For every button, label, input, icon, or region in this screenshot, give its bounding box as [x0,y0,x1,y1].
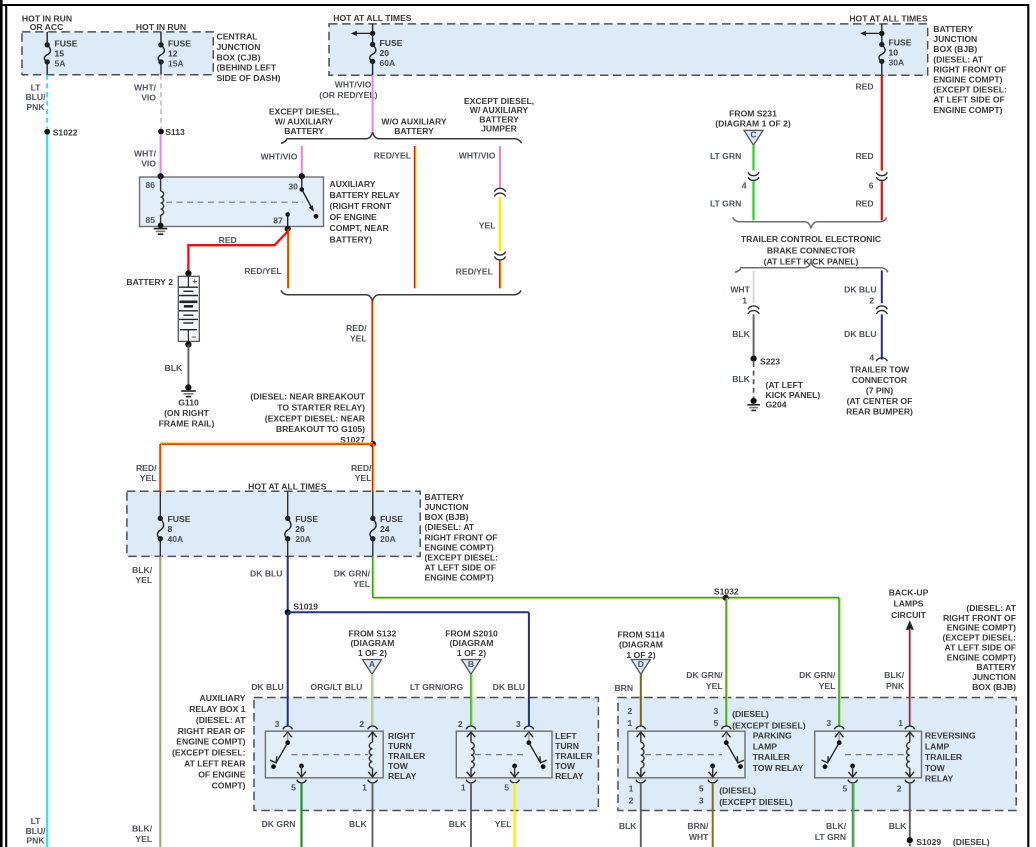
svg-text:87: 87 [273,216,283,226]
svg-text:FRAME RAIL): FRAME RAIL) [159,418,215,428]
svg-text:BOX (BJB): BOX (BJB) [933,44,977,54]
svg-text:YEL: YEL [353,579,370,589]
svg-text:BLK: BLK [732,329,750,339]
svg-text:4: 4 [869,352,874,362]
svg-text:BLK: BLK [619,821,637,831]
svg-text:3: 3 [275,719,280,729]
svg-text:YEL: YEL [350,333,367,343]
svg-text:BREAKOUT TO G105): BREAKOUT TO G105) [276,424,365,434]
svg-text:FUSE: FUSE [55,39,78,49]
svg-text:TO STARTER RELAY): TO STARTER RELAY) [277,402,365,412]
svg-text:2: 2 [628,706,633,716]
svg-text:YEL: YEL [135,834,152,844]
svg-text:AT LEFT SIDE OF: AT LEFT SIDE OF [945,642,1016,652]
svg-text:YEL: YEL [140,473,157,483]
svg-text:COMPT): COMPT) [212,780,246,790]
svg-text:BRN/: BRN/ [687,821,709,831]
svg-text:PNK: PNK [26,102,45,112]
svg-text:1: 1 [898,718,903,728]
svg-text:JUNCTION: JUNCTION [933,34,977,44]
svg-text:RED/: RED/ [136,463,157,473]
svg-text:COMPT, NEAR: COMPT, NEAR [330,223,390,233]
svg-text:2: 2 [458,719,463,729]
svg-text:ENGINE COMPT): ENGINE COMPT) [933,75,1002,85]
svg-text:BLK: BLK [165,363,183,373]
svg-text:SIDE OF DASH): SIDE OF DASH) [217,73,281,83]
svg-text:LEFT: LEFT [555,731,577,741]
svg-text:WHT/VIO: WHT/VIO [335,80,372,90]
svg-text:TRAILER TOW: TRAILER TOW [850,365,910,375]
svg-text:1: 1 [629,784,634,794]
svg-text:5: 5 [842,784,847,794]
svg-text:5: 5 [291,782,296,792]
svg-text:3: 3 [516,719,521,729]
svg-text:CIRCUIT: CIRCUIT [891,610,927,620]
svg-text:8: 8 [168,524,173,534]
svg-text:BLU/: BLU/ [25,92,46,102]
svg-text:AT LEFT REAR: AT LEFT REAR [184,759,246,769]
svg-text:(DIAGRAM 1 OF 2): (DIAGRAM 1 OF 2) [715,119,791,129]
svg-text:RED/YEL: RED/YEL [456,266,493,276]
svg-text:WHT: WHT [689,832,709,842]
svg-text:FROM S114: FROM S114 [617,630,665,640]
svg-text:5: 5 [504,782,509,792]
svg-text:S1022: S1022 [53,127,78,137]
svg-text:BATTERY RELAY: BATTERY RELAY [330,190,400,200]
svg-text:BLU/: BLU/ [25,826,46,836]
svg-text:(EXCEPT DIESEL): (EXCEPT DIESEL) [719,797,793,807]
svg-text:JUNCTION: JUNCTION [972,672,1016,682]
svg-text:(DIESEL: AT: (DIESEL: AT [966,603,1016,613]
svg-text:W/ AUXILIARY: W/ AUXILIARY [275,116,334,126]
svg-text:TOW: TOW [925,763,946,773]
svg-text:5: 5 [714,718,719,728]
svg-text:(BEHIND LEFT: (BEHIND LEFT [217,63,277,73]
svg-text:FUSE: FUSE [380,38,403,48]
svg-text:TURN: TURN [555,741,579,751]
svg-text:JUMPER: JUMPER [481,124,518,134]
svg-text:BLK: BLK [889,821,907,831]
svg-text:HOT AT ALL TIMES: HOT AT ALL TIMES [333,13,412,23]
svg-text:6: 6 [869,180,874,190]
svg-text:CENTRAL: CENTRAL [217,32,258,42]
svg-text:BLK: BLK [349,819,367,829]
svg-text:AT LEFT SIDE OF: AT LEFT SIDE OF [425,563,496,573]
svg-text:S223: S223 [760,356,780,366]
svg-text:FUSE: FUSE [295,514,318,524]
svg-text:24: 24 [380,524,390,534]
svg-text:YEL: YEL [706,681,723,691]
svg-text:5: 5 [699,784,704,794]
svg-text:BLK: BLK [449,819,467,829]
svg-text:RELAY BOX 1: RELAY BOX 1 [189,704,246,714]
svg-text:FUSE: FUSE [168,514,191,524]
svg-text:(EXCEPT DIESEL): (EXCEPT DIESEL) [732,721,806,731]
svg-text:REVERSING: REVERSING [925,731,976,741]
svg-text:WHT/: WHT/ [134,83,157,93]
svg-text:26: 26 [295,524,305,534]
svg-text:RELAY: RELAY [925,774,954,784]
svg-text:RED/YEL: RED/YEL [244,266,281,276]
svg-text:OF ENGINE: OF ENGINE [198,769,246,779]
svg-text:FROM S132: FROM S132 [349,628,397,638]
svg-text:BLK/: BLK/ [884,670,905,680]
svg-text:B: B [468,659,474,669]
svg-text:FUSE: FUSE [168,39,191,49]
svg-text:4: 4 [742,180,747,190]
svg-text:(RIGHT FRONT: (RIGHT FRONT [330,201,392,211]
svg-text:S113: S113 [165,127,185,137]
svg-text:VIO: VIO [141,93,156,103]
svg-text:ENGINE COMPT): ENGINE COMPT) [947,623,1016,633]
svg-text:HOT AT ALL TIMES: HOT AT ALL TIMES [849,13,928,23]
svg-text:BATTERY): BATTERY) [330,234,373,244]
svg-text:(AT CENTER OF: (AT CENTER OF [847,396,913,406]
svg-text:DK GRN/: DK GRN/ [686,670,723,680]
svg-text:OF ENGINE: OF ENGINE [330,212,378,222]
svg-text:BOX (BJB): BOX (BJB) [425,512,469,522]
svg-text:3: 3 [699,795,704,805]
svg-text:W/O AUXILIARY: W/O AUXILIARY [381,117,447,127]
svg-text:S1032: S1032 [714,586,739,596]
svg-text:(DIESEL: AT: (DIESEL: AT [196,715,246,725]
svg-text:AUXILIARY: AUXILIARY [200,693,246,703]
svg-text:AT LEFT SIDE OF: AT LEFT SIDE OF [933,95,1004,105]
svg-text:BLK/: BLK/ [826,821,847,831]
svg-text:LT GRN/ORG: LT GRN/ORG [410,682,464,692]
svg-text:BATTERY: BATTERY [394,126,434,136]
svg-text:FUSE: FUSE [380,514,403,524]
svg-text:LAMP: LAMP [753,741,778,751]
svg-text:G204: G204 [766,399,787,409]
svg-text:YEL: YEL [135,575,152,585]
svg-text:PNK: PNK [26,836,45,846]
svg-text:1: 1 [742,295,747,305]
svg-text:LT GRN: LT GRN [815,832,846,842]
svg-text:A: A [369,659,375,669]
svg-text:AUXILIARY: AUXILIARY [330,179,376,189]
svg-text:LT: LT [31,816,42,826]
svg-text:ENGINE COMPT): ENGINE COMPT) [947,652,1016,662]
svg-text:DK BLU: DK BLU [493,682,525,692]
svg-text:WHT/: WHT/ [134,149,157,159]
svg-text:LT GRN: LT GRN [710,199,741,209]
svg-text:30A: 30A [889,58,905,68]
svg-text:1: 1 [362,782,367,792]
svg-text:BLK: BLK [732,374,750,384]
svg-text:TRAILER: TRAILER [555,751,593,761]
svg-text:TOW: TOW [555,761,576,771]
svg-text:DK BLU: DK BLU [250,569,282,579]
svg-text:(DIESEL: NEAR BREAKOUT: (DIESEL: NEAR BREAKOUT [250,392,365,402]
svg-text:HOT IN RUN: HOT IN RUN [136,22,186,32]
svg-text:86: 86 [145,180,155,190]
svg-text:RIGHT REAR OF: RIGHT REAR OF [178,726,246,736]
svg-text:TOW: TOW [388,761,409,771]
svg-text:(DIESEL): (DIESEL) [732,709,769,719]
svg-text:WHT/VIO: WHT/VIO [261,152,298,162]
svg-text:JUNCTION: JUNCTION [425,502,469,512]
svg-text:2: 2 [897,784,902,794]
svg-text:RELAY: RELAY [388,771,417,781]
svg-text:TRAILER: TRAILER [388,751,426,761]
svg-text:BRN: BRN [614,683,633,693]
svg-text:WHT: WHT [730,285,750,295]
svg-text:60A: 60A [380,58,396,68]
svg-text:YEL: YEL [479,220,496,230]
svg-text:ENGINE COMPT): ENGINE COMPT) [425,573,494,583]
svg-text:(EXCEPT DIESEL: NEAR: (EXCEPT DIESEL: NEAR [265,413,366,423]
svg-text:15A: 15A [168,59,184,69]
svg-text:20A: 20A [295,534,311,544]
svg-text:(EXCEPT DIESEL:: (EXCEPT DIESEL: [942,633,1016,643]
svg-text:10: 10 [889,48,899,58]
svg-text:DK GRN: DK GRN [262,819,296,829]
svg-text:1 OF 2): 1 OF 2) [457,648,486,658]
svg-text:REAR BUMPER): REAR BUMPER) [846,407,913,417]
svg-text:DK BLU: DK BLU [844,285,876,295]
svg-text:DK GRN/: DK GRN/ [799,670,836,680]
svg-text:(DIESEL: AT: (DIESEL: AT [933,54,983,64]
svg-text:TOW RELAY: TOW RELAY [753,763,804,773]
svg-text:PARKING: PARKING [753,731,792,741]
svg-text:RELAY: RELAY [555,771,584,781]
svg-text:VIO: VIO [141,159,156,169]
svg-text:BLK/: BLK/ [132,565,153,575]
svg-text:(EXCEPT DIESEL:: (EXCEPT DIESEL: [425,553,499,563]
svg-text:TRAILER CONTROL ELECTRONIC: TRAILER CONTROL ELECTRONIC [741,234,881,244]
svg-text:(DIESEL: AT: (DIESEL: AT [425,522,475,532]
svg-text:(DIESEL): (DIESEL) [719,786,756,796]
svg-text:(DIESEL): (DIESEL) [953,837,990,847]
svg-text:(AT LEFT: (AT LEFT [766,380,804,390]
svg-text:BATTERY: BATTERY [976,662,1016,672]
svg-text:FUSE: FUSE [889,38,912,48]
svg-text:1: 1 [461,782,466,792]
svg-text:RED: RED [855,81,873,91]
svg-text:20: 20 [380,48,390,58]
svg-text:EXCEPT DIESEL,: EXCEPT DIESEL, [269,107,339,117]
svg-text:20A: 20A [380,534,396,544]
svg-text:ENGINE COMPT): ENGINE COMPT) [933,105,1002,115]
svg-text:LAMPS: LAMPS [893,599,923,609]
svg-text:LT GRN: LT GRN [710,151,741,161]
svg-text:TRAILER: TRAILER [925,752,963,762]
svg-text:S1019: S1019 [293,601,318,611]
svg-text:(DIAGRAM: (DIAGRAM [350,638,394,648]
svg-text:BATTERY 2: BATTERY 2 [126,277,173,287]
svg-text:FROM S231: FROM S231 [729,109,777,119]
svg-text:DK GRN/: DK GRN/ [334,569,371,579]
svg-text:CONNECTOR: CONNECTOR [852,375,908,385]
svg-text:2: 2 [629,795,634,805]
svg-text:RIGHT FRONT OF: RIGHT FRONT OF [425,532,498,542]
svg-text:LT: LT [31,82,42,92]
svg-text:ENGINE COMPT): ENGINE COMPT) [425,542,494,552]
svg-text:ENGINE COMPT): ENGINE COMPT) [176,737,245,747]
svg-text:(EXCEPT DIESEL:: (EXCEPT DIESEL: [933,85,1007,95]
svg-text:5A: 5A [55,59,66,69]
svg-text:1 OF 2): 1 OF 2) [358,648,387,658]
svg-text:OR ACC: OR ACC [30,22,64,32]
svg-text:TRAILER: TRAILER [753,752,791,762]
svg-text:12: 12 [168,49,178,59]
svg-text:YEL: YEL [355,473,372,483]
svg-text:YEL: YEL [495,819,512,829]
svg-text:ORG/LT BLU: ORG/LT BLU [310,682,362,692]
svg-text:−: − [191,332,196,342]
svg-text:RIGHT: RIGHT [388,731,415,741]
svg-text:3: 3 [826,718,831,728]
svg-text:RED: RED [855,151,873,161]
svg-text:2: 2 [359,719,364,729]
svg-text:BATTERY: BATTERY [425,492,465,502]
svg-text:(DIAGRAM: (DIAGRAM [619,640,663,650]
svg-text:BOX (BJB): BOX (BJB) [972,682,1016,692]
svg-text:FROM S2010: FROM S2010 [445,628,498,638]
svg-text:C: C [750,130,756,140]
svg-text:RED/: RED/ [351,463,372,473]
svg-text:+: + [192,276,197,286]
svg-text:40A: 40A [168,534,184,544]
svg-text:2: 2 [869,295,874,305]
svg-text:85: 85 [145,215,155,225]
svg-text:(EXCEPT DIESEL:: (EXCEPT DIESEL: [172,748,246,758]
svg-text:30: 30 [288,181,298,191]
svg-text:(DIAGRAM: (DIAGRAM [450,638,494,648]
svg-text:RED: RED [219,235,237,245]
svg-text:TURN: TURN [388,741,412,751]
svg-text:DK BLU: DK BLU [251,682,283,692]
svg-text:(7 PIN): (7 PIN) [866,386,893,396]
svg-text:RIGHT FRONT OF: RIGHT FRONT OF [943,613,1016,623]
svg-text:G110: G110 [178,398,199,408]
svg-text:RED/YEL: RED/YEL [374,151,411,161]
svg-text:1: 1 [628,718,633,728]
svg-text:(ON RIGHT: (ON RIGHT [164,408,210,418]
svg-text:S1029: S1029 [916,837,941,847]
svg-text:(OR RED/YEL): (OR RED/YEL) [319,90,377,100]
svg-text:LAMP: LAMP [925,741,950,751]
svg-text:JUNCTION: JUNCTION [217,42,261,52]
svg-text:3: 3 [714,706,719,716]
svg-text:BLK/: BLK/ [132,824,153,834]
svg-text:BRAKE CONNECTOR: BRAKE CONNECTOR [767,245,856,255]
svg-text:15: 15 [55,49,65,59]
svg-text:DK BLU: DK BLU [844,329,876,339]
svg-text:PNK: PNK [886,681,905,691]
svg-text:RED: RED [855,199,873,209]
svg-text:BACK-UP: BACK-UP [889,587,929,597]
svg-text:RIGHT FRONT OF: RIGHT FRONT OF [933,64,1006,74]
svg-text:BOX (CJB): BOX (CJB) [217,52,261,62]
svg-text:YEL: YEL [819,681,836,691]
svg-text:WHT/VIO: WHT/VIO [459,151,496,161]
svg-text:RED/: RED/ [346,323,367,333]
svg-text:D: D [638,659,644,669]
svg-text:BATTERY: BATTERY [933,24,973,34]
svg-text:BATTERY: BATTERY [284,126,324,136]
svg-text:HOT AT ALL TIMES: HOT AT ALL TIMES [248,481,327,491]
